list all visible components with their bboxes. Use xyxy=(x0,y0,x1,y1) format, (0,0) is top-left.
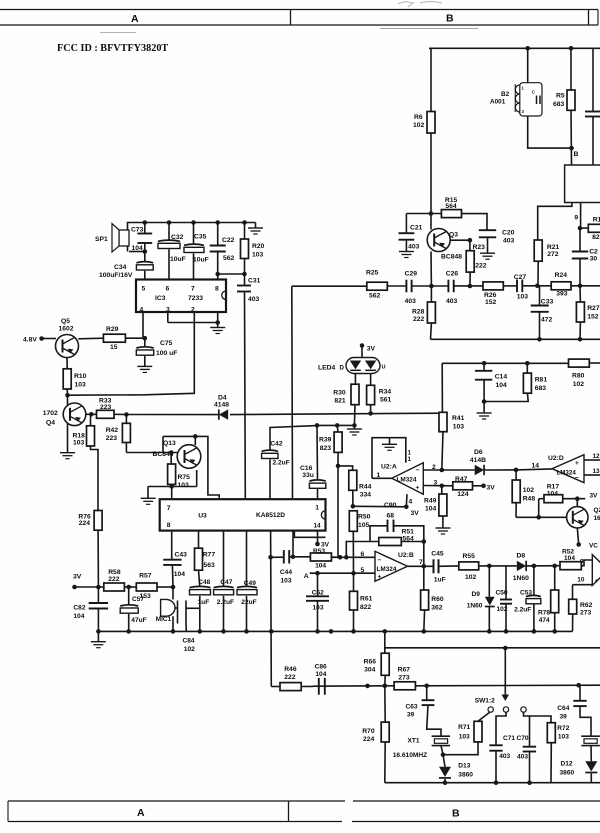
wire osc bottom rail xyxy=(385,782,600,784)
svg-text:8: 8 xyxy=(215,286,219,293)
op-amp U2:B xyxy=(375,551,408,581)
svg-text:304: 304 xyxy=(364,666,376,673)
capacitor C44 xyxy=(271,556,284,558)
svg-text:10uF: 10uF xyxy=(193,257,209,264)
resistor R17 xyxy=(538,499,540,518)
svg-text:C53: C53 xyxy=(520,589,532,596)
svg-text:273: 273 xyxy=(580,610,592,617)
svg-text:R25: R25 xyxy=(366,270,379,277)
svg-text:R55: R55 xyxy=(463,553,476,560)
svg-text:102: 102 xyxy=(573,381,585,388)
capacitor C42 xyxy=(270,426,317,450)
capacitor C63 xyxy=(426,686,428,700)
resistor R60 xyxy=(423,566,425,590)
svg-text:1N60: 1N60 xyxy=(513,575,529,582)
svg-text:403: 403 xyxy=(446,298,458,305)
wire pin8 link xyxy=(218,273,245,275)
capacitor C52 xyxy=(317,573,319,596)
wire speaker top xyxy=(128,223,256,231)
svg-text:C43: C43 xyxy=(175,552,188,559)
capacitor C73 xyxy=(144,223,146,234)
svg-text:R62: R62 xyxy=(580,602,593,609)
svg-text:14: 14 xyxy=(314,523,322,530)
svg-text:2.2uF: 2.2uF xyxy=(273,460,290,467)
svg-text:104: 104 xyxy=(564,555,575,562)
svg-text:R61: R61 xyxy=(360,596,373,603)
resistor R19 xyxy=(580,227,588,229)
resistor R30 xyxy=(354,374,356,385)
svg-text:R6: R6 xyxy=(414,114,423,121)
svg-text:7: 7 xyxy=(191,286,195,293)
wire Q2 emitter VCO xyxy=(577,528,578,545)
svg-text:3V: 3V xyxy=(73,574,82,581)
svg-text:474: 474 xyxy=(539,617,550,624)
resistor R61 xyxy=(353,573,355,591)
ground C14 xyxy=(483,402,485,413)
svg-text:561: 561 xyxy=(380,397,392,404)
svg-text:223: 223 xyxy=(100,404,112,411)
svg-text:R70: R70 xyxy=(362,728,375,735)
svg-text:222: 222 xyxy=(413,316,425,323)
wire Q4 top lead xyxy=(67,395,69,405)
svg-text:2.2uF: 2.2uF xyxy=(514,606,531,613)
svg-text:2: 2 xyxy=(432,464,436,471)
svg-text:A: A xyxy=(304,573,309,580)
wire U3 pin14 jog xyxy=(294,531,325,538)
ground C21 xyxy=(405,240,407,251)
diode D13 xyxy=(443,755,445,767)
svg-text:R60: R60 xyxy=(431,596,444,603)
wire pin4 lead xyxy=(142,312,144,338)
title block bottom band xyxy=(8,800,345,802)
svg-text:102: 102 xyxy=(184,646,195,653)
diode D12 xyxy=(590,746,592,762)
svg-text:8: 8 xyxy=(167,522,171,529)
svg-text:R81: R81 xyxy=(535,377,548,384)
svg-text:C49: C49 xyxy=(244,580,256,587)
svg-text:224: 224 xyxy=(363,736,375,743)
svg-text:22uF: 22uF xyxy=(241,599,256,606)
op-amp U2:A xyxy=(392,463,424,495)
ground rail left xyxy=(97,631,99,641)
svg-text:1602: 1602 xyxy=(59,326,74,333)
capacitor C22 xyxy=(217,223,219,246)
transistor Q4 xyxy=(63,403,86,426)
capacitor C64 xyxy=(579,685,581,701)
wire Q13 base xyxy=(126,452,177,454)
capacitor C21 xyxy=(405,214,407,234)
ground Q13 xyxy=(147,487,149,499)
svg-text:R39: R39 xyxy=(319,437,332,444)
svg-text:U2:D: U2:D xyxy=(548,455,564,462)
node 3V R47 xyxy=(473,485,484,487)
svg-text:A: A xyxy=(131,13,139,25)
resistor R53 xyxy=(310,553,331,561)
svg-text:822: 822 xyxy=(360,604,372,611)
svg-text:C75: C75 xyxy=(160,340,173,347)
svg-text:LM324: LM324 xyxy=(377,566,397,573)
resistor R58 xyxy=(104,583,125,591)
svg-text:R53: R53 xyxy=(313,548,325,555)
svg-text:C73: C73 xyxy=(131,227,144,234)
svg-text:R30: R30 xyxy=(333,390,346,397)
svg-text:10: 10 xyxy=(577,577,585,584)
svg-text:+: + xyxy=(378,574,382,581)
svg-text:403: 403 xyxy=(248,296,260,303)
svg-text:39: 39 xyxy=(560,714,568,721)
svg-text:222: 222 xyxy=(284,674,296,681)
svg-text:B: B xyxy=(574,151,579,158)
svg-text:683: 683 xyxy=(535,385,547,392)
svg-text:C44: C44 xyxy=(280,569,292,576)
svg-text:D12: D12 xyxy=(561,761,573,768)
svg-text:13: 13 xyxy=(593,468,600,475)
svg-text:R26: R26 xyxy=(484,292,497,299)
svg-text:4148: 4148 xyxy=(214,402,229,409)
svg-text:R44: R44 xyxy=(359,484,372,491)
svg-text:393: 393 xyxy=(556,291,568,298)
wire to U2:D pin 14 xyxy=(516,469,552,470)
svg-text:R23: R23 xyxy=(473,244,486,251)
diode D4 wire xyxy=(126,414,218,416)
svg-text:−: − xyxy=(575,475,579,482)
svg-text:273: 273 xyxy=(398,675,410,682)
capacitor C29 xyxy=(405,280,407,293)
svg-text:152: 152 xyxy=(587,314,599,321)
svg-text:1: 1 xyxy=(377,472,381,479)
svg-text:1uF: 1uF xyxy=(434,577,446,584)
wire U3 pin to R46 xyxy=(270,531,273,687)
resistor R46 xyxy=(271,686,280,688)
svg-text:B: B xyxy=(446,13,454,25)
svg-text:C82: C82 xyxy=(73,605,85,612)
svg-text:3: 3 xyxy=(434,480,438,487)
wire Q13 emitter xyxy=(196,470,198,487)
svg-text:KA8512D: KA8512D xyxy=(256,512,285,519)
wire 3V rail xyxy=(75,586,104,588)
svg-text:C27: C27 xyxy=(514,274,527,281)
resistor R41 xyxy=(441,363,443,412)
resistor R29 xyxy=(103,334,125,342)
svg-text:104: 104 xyxy=(174,571,186,578)
resistor R62 xyxy=(572,585,574,600)
svg-text:16.610MHZ: 16.610MHZ xyxy=(393,752,427,759)
svg-text:Q5: Q5 xyxy=(61,318,70,325)
svg-text:7: 7 xyxy=(419,559,423,566)
svg-text:3V: 3V xyxy=(367,346,376,353)
svg-text:R21: R21 xyxy=(547,244,560,251)
svg-text:5: 5 xyxy=(361,567,365,574)
svg-text:U2:B: U2:B xyxy=(398,552,414,559)
resistor R5 xyxy=(567,90,575,110)
resistor R42 xyxy=(125,415,127,424)
svg-text:1: 1 xyxy=(315,505,319,512)
wire lower rail xyxy=(431,338,600,340)
svg-text:R66: R66 xyxy=(364,659,377,666)
svg-text:403: 403 xyxy=(405,298,417,305)
svg-text:3V: 3V xyxy=(411,510,420,517)
wire Q5 collector xyxy=(78,337,103,340)
svg-text:R72: R72 xyxy=(557,725,569,732)
svg-text:U3: U3 xyxy=(198,512,207,519)
capacitor C27 xyxy=(516,280,518,293)
node 3V LED xyxy=(360,343,365,348)
wire Q5 emitter xyxy=(66,358,68,369)
svg-text:3860: 3860 xyxy=(560,770,575,777)
ground C75 xyxy=(144,356,146,366)
wire Q4 base xyxy=(86,413,97,415)
capacitor C75 xyxy=(144,338,146,347)
wire R81 bottom xyxy=(484,393,528,401)
svg-text:562: 562 xyxy=(223,255,235,262)
svg-text:R75: R75 xyxy=(178,474,191,481)
wire B2 bottom xyxy=(528,116,572,148)
resistor R28 xyxy=(430,286,432,302)
svg-text:C42: C42 xyxy=(270,441,282,448)
capacitor C34 xyxy=(144,252,146,263)
wire speaker bottom xyxy=(129,251,145,253)
resistor R80 xyxy=(569,359,590,367)
svg-text:3V: 3V xyxy=(487,485,496,492)
wire R75 to U3 xyxy=(171,487,173,500)
svg-text:R20: R20 xyxy=(252,243,265,250)
svg-text:C35: C35 xyxy=(194,234,207,241)
pin 9 xyxy=(580,203,582,229)
svg-text:39: 39 xyxy=(407,712,415,719)
svg-text:4: 4 xyxy=(409,499,413,506)
svg-text:272: 272 xyxy=(547,251,559,258)
svg-text:683: 683 xyxy=(553,101,565,108)
ground LED xyxy=(353,425,355,428)
resistor R18 xyxy=(90,414,92,426)
svg-text:LED4: LED4 xyxy=(318,365,336,372)
wire Q5 base xyxy=(42,338,56,340)
svg-text:R46: R46 xyxy=(284,666,297,673)
svg-text:6: 6 xyxy=(166,286,170,293)
svg-text:C14: C14 xyxy=(495,374,508,381)
capacitor C82 xyxy=(97,587,99,603)
capacitor C57 xyxy=(128,587,130,605)
capacitor C49 xyxy=(246,531,248,587)
wire R44 link xyxy=(338,466,353,470)
resistor R21 body xyxy=(534,240,542,261)
svg-text:IC3: IC3 xyxy=(155,295,166,302)
svg-text:C45: C45 xyxy=(431,551,444,558)
svg-text:103: 103 xyxy=(73,440,85,447)
svg-text:C26: C26 xyxy=(446,271,459,278)
wire pin3 ground xyxy=(167,312,169,323)
svg-text:C84: C84 xyxy=(183,638,195,645)
svg-text:334: 334 xyxy=(360,491,372,498)
wire osc mid rail xyxy=(313,685,394,687)
svg-text:362: 362 xyxy=(431,605,443,612)
svg-text:47uF: 47uF xyxy=(131,617,146,624)
resistor R25 xyxy=(367,282,388,290)
capacitor C71 xyxy=(496,712,506,745)
capacitor C47 xyxy=(223,531,225,587)
microphone MIC1 xyxy=(172,587,174,599)
svg-text:563: 563 xyxy=(204,562,216,569)
svg-text:FCC ID : BFVTFY3820T: FCC ID : BFVTFY3820T xyxy=(57,43,168,54)
svg-text:R41: R41 xyxy=(452,415,465,422)
svg-text:104: 104 xyxy=(496,382,508,389)
svg-text:104: 104 xyxy=(547,490,559,497)
resistor R78 xyxy=(554,566,556,590)
svg-text:1: 1 xyxy=(408,456,412,463)
capacitor C14 xyxy=(483,363,485,371)
capacitor C50 xyxy=(505,566,507,600)
ground U2:A xyxy=(389,438,391,444)
speaker SP1 xyxy=(119,230,129,246)
diode D9 xyxy=(488,566,490,597)
svg-text:104: 104 xyxy=(132,245,144,252)
wire R5 top lead xyxy=(570,48,572,90)
svg-text:102: 102 xyxy=(465,574,477,581)
resistor R72 xyxy=(530,716,552,723)
svg-text:C21: C21 xyxy=(410,225,423,232)
svg-text:100uF/16V: 100uF/16V xyxy=(99,272,133,279)
wire R6 top lead xyxy=(430,48,432,111)
svg-text:C20: C20 xyxy=(502,230,515,237)
wire U2:B output pin 7 xyxy=(408,565,434,567)
svg-text:C70: C70 xyxy=(517,735,529,742)
resistor R71 xyxy=(478,712,490,721)
IC U3 KA8512D box xyxy=(160,499,326,530)
resistor R34 xyxy=(370,374,372,386)
svg-text:3V: 3V xyxy=(590,493,599,500)
resistor R66 xyxy=(381,653,389,675)
svg-text:+: + xyxy=(416,485,420,492)
diode D8 xyxy=(517,561,526,571)
resistor R57 xyxy=(136,583,157,591)
svg-text:R48: R48 xyxy=(523,496,536,503)
wire R39 column to pin6 xyxy=(337,466,339,557)
svg-text:R28: R28 xyxy=(412,309,425,316)
resistor R20 xyxy=(244,223,246,240)
wire pin2 lead xyxy=(68,312,195,395)
IC3 box xyxy=(136,280,226,313)
svg-text:−: − xyxy=(416,467,420,474)
svg-text:R77: R77 xyxy=(203,552,216,559)
resistor R50 xyxy=(349,511,357,532)
svg-text:10uF: 10uF xyxy=(170,256,186,263)
svg-text:103: 103 xyxy=(459,734,470,741)
svg-text:R18: R18 xyxy=(73,433,86,440)
svg-text:103: 103 xyxy=(178,482,190,489)
svg-text:C52: C52 xyxy=(312,590,324,597)
wire U2:A output pin 1 xyxy=(372,477,392,479)
svg-text:D6: D6 xyxy=(474,449,483,456)
svg-text:C32: C32 xyxy=(171,234,184,241)
svg-text:B2: B2 xyxy=(501,91,510,98)
wire mid bottom rail xyxy=(98,630,572,632)
svg-text:403: 403 xyxy=(408,244,420,251)
svg-text:C63: C63 xyxy=(406,704,418,711)
svg-text:4.8V: 4.8V xyxy=(23,336,37,343)
capacitor C48 xyxy=(190,586,211,587)
svg-text:R78: R78 xyxy=(538,610,550,617)
wire R52 to U2:C xyxy=(581,560,592,566)
resistor R51 xyxy=(379,538,402,546)
capacitor C86 xyxy=(318,678,320,695)
wire R5 bottom lead xyxy=(570,110,573,165)
capacitor C23 xyxy=(579,228,581,251)
resistor R15 xyxy=(441,210,461,218)
svg-text:R1: R1 xyxy=(593,217,600,224)
wire U3 pin 3V xyxy=(317,531,319,544)
svg-text:C2: C2 xyxy=(589,249,598,256)
svg-text:LM324: LM324 xyxy=(397,477,417,484)
svg-text:C90: C90 xyxy=(384,502,397,509)
svg-text:MIC1: MIC1 xyxy=(156,616,172,623)
capacitor C45 xyxy=(433,559,435,573)
resistor R26 xyxy=(483,282,503,290)
svg-text:103: 103 xyxy=(558,734,569,741)
svg-text:152: 152 xyxy=(485,299,497,306)
svg-text:R29: R29 xyxy=(106,326,119,333)
wire R6 bottom lead xyxy=(430,133,432,214)
wire U2:D pin 13 xyxy=(584,474,600,476)
wire Q13 collector loop xyxy=(194,436,196,445)
wire osc top rail xyxy=(385,647,600,649)
crystal XT1 xyxy=(432,735,450,737)
svg-text:821: 821 xyxy=(334,398,346,405)
wire R29 right xyxy=(125,337,144,339)
svg-text:823: 823 xyxy=(320,445,332,452)
capacitor C16 xyxy=(316,425,319,480)
svg-text:104: 104 xyxy=(315,671,326,678)
svg-text:104: 104 xyxy=(73,613,84,620)
svg-text:C29: C29 xyxy=(405,271,418,278)
svg-text:R34: R34 xyxy=(379,389,392,396)
svg-text:C64: C64 xyxy=(557,705,569,712)
resistor R67 xyxy=(394,682,415,690)
svg-text:103: 103 xyxy=(281,577,292,584)
resistor R52 xyxy=(560,562,581,570)
svg-text:D8: D8 xyxy=(517,553,526,560)
svg-text:Q2: Q2 xyxy=(594,507,600,514)
svg-text:+: + xyxy=(575,460,579,467)
resistor R27 xyxy=(579,286,581,302)
svg-text:R47: R47 xyxy=(455,476,468,483)
svg-text:C47: C47 xyxy=(220,579,232,586)
svg-text:562: 562 xyxy=(369,293,381,300)
svg-text:1N60: 1N60 xyxy=(467,603,483,610)
svg-text:14: 14 xyxy=(532,463,540,470)
svg-text:LM324: LM324 xyxy=(557,470,577,477)
svg-text:R49: R49 xyxy=(424,498,437,505)
capacitor C26 xyxy=(447,280,449,293)
capacitor C31 xyxy=(244,274,246,286)
svg-text:R51: R51 xyxy=(402,529,415,536)
capacitor C20 xyxy=(479,229,496,231)
capacitor C53 xyxy=(533,566,535,596)
svg-text:VC: VC xyxy=(589,543,598,550)
wire R25 column xyxy=(291,286,294,499)
wire U2:B pin 5 row xyxy=(310,572,375,574)
svg-text:2.2uF: 2.2uF xyxy=(217,599,234,606)
svg-text:R67: R67 xyxy=(398,666,411,673)
svg-text:R58: R58 xyxy=(108,569,121,576)
svg-text:D13: D13 xyxy=(458,763,470,770)
svg-text:222: 222 xyxy=(475,263,487,270)
svg-text:564: 564 xyxy=(445,203,457,210)
svg-text:9: 9 xyxy=(580,559,584,566)
svg-text:C71: C71 xyxy=(503,735,515,742)
svg-text:223: 223 xyxy=(106,435,118,442)
svg-text:U: U xyxy=(382,365,386,371)
resistor R44 xyxy=(349,470,357,490)
